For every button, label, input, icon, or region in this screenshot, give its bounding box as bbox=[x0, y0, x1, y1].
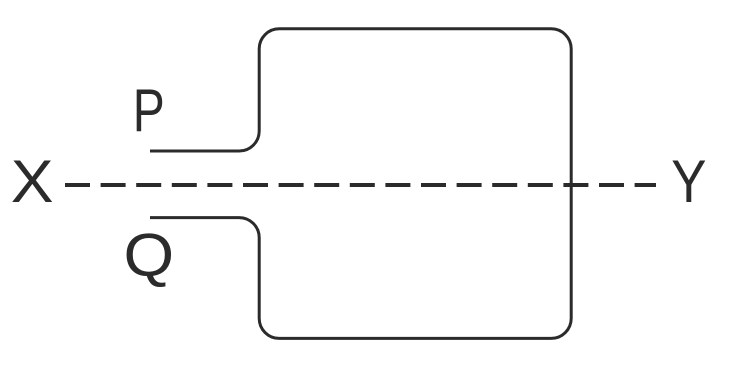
label P bbox=[133, 77, 165, 144]
label Q bbox=[124, 222, 175, 289]
label Y bbox=[671, 148, 706, 215]
label X bbox=[11, 149, 54, 216]
svg-text:Q: Q bbox=[124, 222, 175, 289]
vessel outline (tube entering rounded chamber) bbox=[150, 29, 571, 339]
axis dashed line X-Y bbox=[65, 183, 656, 187]
svg-text:X: X bbox=[11, 149, 54, 216]
svg-text:P: P bbox=[133, 77, 165, 144]
svg-text:Y: Y bbox=[671, 148, 706, 215]
